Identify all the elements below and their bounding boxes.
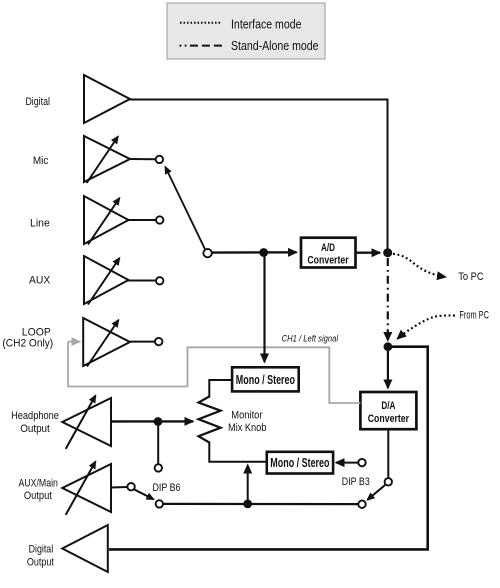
svg-text:Digital: Digital: [25, 96, 50, 108]
wire mic amp to output node: [130, 158, 156, 160]
wire junction down to open contact: [157, 422, 159, 464]
A/D converter box U1: [301, 238, 356, 268]
legend dash-dot sample: Stand-Alone mode: [180, 38, 319, 53]
D/A converter box U2: [360, 392, 416, 429]
svg-text:D/A: D/A: [381, 400, 395, 412]
svg-text:DIP B6: DIP B6: [153, 482, 181, 494]
gray CH1 / Left signal path: [68, 333, 360, 403]
potentiometer Monitor Mix Knob: [199, 397, 267, 443]
svg-text:Output: Output: [20, 423, 50, 435]
wire digital input to top-right vertical: [130, 100, 388, 250]
wire selector to A/D converter: [212, 251, 297, 254]
dotted link to To PC: [393, 254, 446, 277]
svg-text:CH1 / Left signal: CH1 / Left signal: [282, 333, 339, 343]
junction headphone branch: [154, 417, 163, 426]
svg-text:Output: Output: [24, 490, 52, 502]
svg-text:Monitor: Monitor: [231, 410, 262, 422]
wire aux/main amp input: [111, 486, 127, 489]
svg-text:Stand-Alone mode: Stand-Alone mode: [231, 38, 319, 53]
junction monitor feed: [243, 500, 252, 509]
dotted link from From PC: [398, 315, 456, 338]
legend dotted sample: Interface mode: [180, 17, 302, 32]
node DIP B6 lower contact: [156, 500, 163, 507]
amplifier Digital Output (points left): [27, 525, 108, 572]
node line output circle: [156, 216, 163, 223]
node loop output circle: [155, 338, 162, 345]
junction To-PC node: [383, 248, 392, 257]
node DIP B3 upper contact: [385, 478, 392, 485]
svg-text:DIP B3: DIP B3: [342, 476, 370, 488]
svg-text:AUX: AUX: [29, 275, 51, 287]
wire junction up into pot bottom line: [247, 465, 249, 504]
Mono/Stereo box 2: [267, 452, 333, 474]
amplifier AUX input (variable gain): [29, 256, 129, 305]
node open contact below headphone junction: [155, 464, 162, 471]
wire CH1 branch down to Mono/Stereo 1: [263, 253, 265, 363]
node DIP B3 lower contact: [358, 501, 365, 508]
amplifier Mic input (variable gain): [33, 136, 130, 183]
wire stand-alone loop: junction to digital output: [109, 347, 428, 550]
svg-text:To PC: To PC: [458, 271, 484, 283]
amplifier Digital input: [25, 75, 130, 123]
wire DIP B3 contact into Mono/Stereo 2: [336, 462, 358, 464]
svg-text:A/D: A/D: [321, 242, 335, 254]
amplifier AUX/Main Output (variable gain, points left): [19, 462, 112, 515]
wire D/A bottom to DIP B3 upper contact: [387, 429, 389, 477]
svg-text:From PC: From PC: [459, 310, 489, 322]
wire junction to D/A converter: [387, 351, 389, 388]
svg-text:Converter: Converter: [307, 254, 349, 266]
switch arm DIP B6: [134, 489, 154, 499]
svg-text:Digital: Digital: [29, 544, 54, 556]
wire A/D output to To-PC junction: [356, 251, 381, 253]
svg-text:Interface mode: Interface mode: [231, 17, 302, 32]
junction From-PC node: [384, 342, 393, 351]
svg-text:Output: Output: [27, 557, 54, 569]
junction at CH1 branch: [259, 248, 268, 257]
node selector common circle: [203, 249, 211, 257]
wire headphone amp to pot wiper: [111, 420, 193, 423]
svg-text:AUX/Main: AUX/Main: [19, 478, 58, 490]
wire potentiometer bottom to Mono/Stereo 2: [209, 442, 266, 462]
dash-dot stand-alone link down: [387, 258, 389, 341]
node mic output circle: [156, 156, 163, 163]
switch arm DIP B3: [368, 485, 386, 500]
svg-text:(CH2 Only): (CH2 Only): [2, 338, 53, 350]
amplifier LOOP input (variable gain): [2, 318, 130, 367]
node DIP B3 feed circle: [358, 459, 365, 466]
wire line amp to output node: [129, 219, 157, 221]
svg-text:Mono / Stereo: Mono / Stereo: [236, 373, 295, 387]
svg-text:Converter: Converter: [368, 413, 410, 425]
wire DIP B6 row: [163, 503, 358, 505]
svg-text:Mix Knob: Mix Knob: [228, 422, 266, 434]
wire loop amp to output node: [130, 341, 155, 343]
svg-text:Headphone: Headphone: [11, 410, 59, 422]
svg-text:Mic: Mic: [33, 155, 49, 167]
wire aux amp to output node: [129, 280, 157, 282]
selector switch arm to mic node: [165, 167, 205, 250]
amplifier Headphone Output (variable gain, points left): [11, 396, 111, 449]
legend box: [167, 3, 325, 59]
amplifier Line input (variable gain): [30, 196, 129, 245]
svg-text:Mono / Stereo: Mono / Stereo: [270, 456, 329, 470]
node aux output circle: [156, 277, 163, 284]
wire Mono/Stereo 1 to potentiometer top: [209, 380, 232, 398]
node aux/main input circle: [127, 483, 134, 490]
svg-text:Line: Line: [30, 218, 50, 230]
Mono/Stereo box 1: [232, 367, 299, 391]
